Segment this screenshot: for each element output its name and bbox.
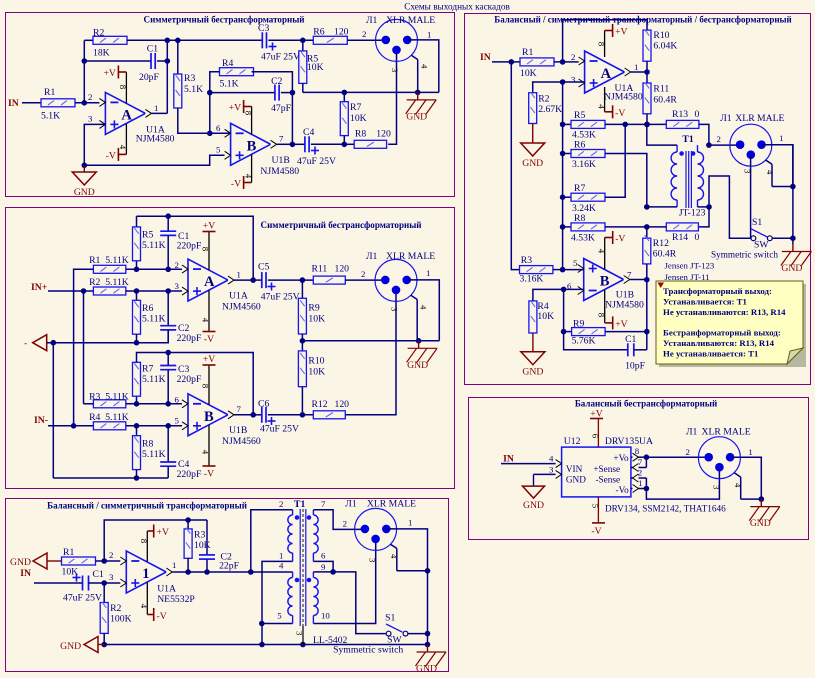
svg-text:120: 120	[334, 27, 349, 38]
power -V U1B (sec2)	[201, 425, 216, 480]
svg-text:5.11K: 5.11K	[142, 314, 166, 325]
svg-text:-V: -V	[204, 469, 214, 480]
wire R5 to top rail	[136, 216, 138, 227]
section 5 title	[575, 399, 717, 409]
wire R14 left	[647, 226, 667, 228]
svg-text:20pF: 20pF	[139, 72, 160, 83]
svg-text:+Vo: +Vo	[613, 453, 629, 463]
svg-text:U12: U12	[564, 436, 581, 447]
ground GND arrow upper (sec3)	[10, 553, 62, 569]
svg-text:10K: 10K	[537, 311, 554, 322]
svg-text:5: 5	[216, 145, 221, 155]
transformer T1 LL-5402 (sec3)	[277, 499, 347, 646]
svg-text:5.11K: 5.11K	[142, 449, 166, 460]
svg-text:Symmetric switch: Symmetric switch	[711, 250, 778, 260]
wire R11 to XLR pin2	[345, 269, 385, 280]
svg-text:S1: S1	[752, 217, 762, 228]
svg-text:U1A: U1A	[157, 584, 176, 595]
ground chassis GND (sec3)	[416, 645, 447, 675]
svg-text:8: 8	[118, 85, 128, 90]
svg-text:4: 4	[765, 170, 775, 175]
svg-text:Symmetric switch: Symmetric switch	[333, 645, 403, 656]
resistor R9 (sec4)	[564, 319, 606, 347]
svg-text:4: 4	[139, 604, 149, 609]
capacitor C1 (sec1)	[84, 44, 167, 84]
wire T1 primary bottom (sec4)	[647, 206, 677, 208]
wire out to T1 pin4	[251, 571, 293, 573]
section 2 frame: Симметричный бестрансформаторный	[6, 208, 455, 489]
wire C3 to R6	[268, 38, 313, 44]
wire R12 to pin7	[644, 264, 650, 283]
svg-text:R7: R7	[142, 364, 153, 375]
svg-text:1: 1	[426, 268, 430, 278]
svg-text:10K: 10K	[62, 567, 79, 578]
wire R7 to pin7 line	[342, 136, 348, 148]
svg-text:47uF 25V: 47uF 25V	[261, 292, 300, 303]
wire pin6 net	[533, 287, 584, 301]
resistor R13 (sec4)	[666, 109, 699, 128]
wire pin8 +Vo	[631, 446, 649, 461]
svg-text:7: 7	[279, 134, 284, 144]
svg-text:0: 0	[695, 109, 700, 120]
svg-text:47pF: 47pF	[271, 103, 292, 114]
svg-text:22pF: 22pF	[219, 561, 240, 572]
wire IN+ line	[48, 288, 93, 294]
wire B node vertical	[646, 227, 648, 238]
svg-text:R8: R8	[355, 129, 366, 140]
svg-text:DRV135UA: DRV135UA	[605, 436, 653, 447]
wire R11 to R13 line	[644, 114, 650, 127]
svg-text:2: 2	[109, 550, 113, 560]
svg-text:GND: GND	[74, 187, 95, 198]
svg-text:2: 2	[343, 519, 347, 529]
wire XLR1 pin4 shell	[411, 55, 429, 92]
svg-text:6: 6	[591, 434, 601, 439]
wire out to T1 pin2	[251, 510, 293, 572]
svg-text:B: B	[204, 409, 214, 425]
svg-text:R13: R13	[672, 109, 688, 120]
wire XLR3 pin4 shell	[389, 544, 428, 571]
svg-text:Л1: Л1	[366, 251, 378, 262]
capacitor C4 (sec2)	[160, 426, 202, 480]
svg-text:Балансный / симметричный транс: Балансный / симметричный трансформаторны…	[47, 501, 247, 511]
svg-text:Схемы выходных каскадов: Схемы выходных каскадов	[404, 2, 510, 12]
wire XLR3 pin1	[386, 529, 430, 574]
svg-text:3: 3	[295, 631, 305, 636]
svg-text:C2: C2	[271, 76, 282, 87]
svg-text:GND: GND	[60, 641, 81, 652]
ground chassis GND (sec4)	[781, 244, 812, 274]
wire T1 pin7 to XLR pin2	[313, 510, 365, 530]
wire secondary to R14	[698, 207, 709, 227]
svg-text:120: 120	[335, 264, 350, 275]
svg-text:8: 8	[201, 247, 211, 252]
wire cross vertical x73	[71, 269, 94, 428]
svg-text:Трансформаторный выход:: Трансформаторный выход:	[663, 286, 772, 296]
svg-text:GND: GND	[416, 664, 437, 675]
svg-text:Устанавливается: T1: Устанавливается: T1	[663, 296, 747, 306]
svg-text:5: 5	[591, 504, 601, 509]
resistor R5 (sec2)	[133, 227, 166, 269]
op-amp U1B (sec4) NJM4580	[567, 258, 644, 311]
ground chassis GND (sec5)	[749, 499, 780, 529]
svg-text:R2: R2	[110, 603, 121, 614]
power -V U1A (sec1)	[106, 124, 128, 162]
power -V U1A (sec2)	[201, 290, 216, 345]
resistor R10 (sec4)	[643, 30, 677, 62]
wire T1 pin6 to pin9	[313, 561, 336, 574]
ground chassis GND (sec2)	[407, 341, 438, 371]
node IN- (sec2)	[34, 415, 48, 426]
wire R8 bottom	[136, 470, 138, 478]
wire R8 to R14 line	[605, 224, 650, 230]
connector Л1 XLR MALE (sec4)	[720, 113, 784, 166]
op-amp U1A (sec2) NJM4560	[175, 259, 261, 312]
svg-text:NJM4580: NJM4580	[260, 166, 299, 177]
wire pin6 to R9	[561, 289, 567, 334]
wire pin7 +Sense	[631, 457, 647, 472]
wire IN to pin4	[501, 454, 562, 468]
capacitor C2 (sec1)	[210, 76, 293, 114]
wire switch to gnd vertical	[408, 631, 430, 637]
svg-text:6.04K: 6.04K	[653, 41, 677, 52]
capacitor C1 10pF (sec4)	[564, 332, 647, 372]
svg-text:R9: R9	[308, 303, 319, 314]
svg-text:NJM4580: NJM4580	[604, 91, 643, 102]
wire R12 to XLR pin3	[345, 290, 396, 415]
wire XLR4 pin4 shell	[765, 160, 793, 187]
svg-text:IN: IN	[8, 98, 19, 109]
svg-text:5: 5	[277, 611, 282, 621]
wire R9 to out vertical	[605, 329, 650, 335]
wire R7 top rail B	[137, 350, 257, 418]
svg-text:IN+: IN+	[31, 282, 47, 293]
svg-text:220pF: 220pF	[177, 374, 202, 385]
svg-text:8: 8	[597, 42, 607, 47]
svg-text:2: 2	[175, 260, 179, 270]
svg-text:5: 5	[573, 258, 578, 268]
wire R6 bottom to mid rail	[136, 334, 138, 343]
svg-text:R5: R5	[142, 230, 153, 241]
wire pin1 -Vo	[631, 478, 649, 493]
IC U12 DRV135UA	[562, 436, 653, 497]
svg-text:10K: 10K	[520, 68, 537, 79]
text Jensen JT-11	[665, 272, 710, 282]
svg-text:GND: GND	[522, 158, 543, 169]
wire R8 to XLR pin3	[388, 50, 396, 144]
resistor R9 (sec2)	[298, 280, 325, 334]
svg-text:3: 3	[368, 558, 378, 563]
svg-text:C1: C1	[147, 44, 158, 55]
svg-text:Л1: Л1	[345, 499, 357, 510]
svg-text:10K: 10K	[308, 367, 325, 378]
wire R6 to XLR pin2	[347, 29, 386, 40]
svg-text:18K: 18K	[93, 48, 110, 59]
section 5 frame: Балансный бестрансформаторный	[469, 398, 809, 540]
svg-text:0: 0	[695, 232, 700, 243]
wire R9-R10 mid	[300, 334, 306, 351]
wire IN to C1	[34, 582, 83, 584]
svg-text:4: 4	[389, 554, 399, 559]
svg-text:R2 5.11K: R2 5.11K	[89, 277, 129, 288]
svg-text:VIN: VIN	[566, 464, 583, 474]
capacitor C5 47uF (sec2)	[253, 262, 313, 303]
capacitor C4 47uF (sec1)	[292, 127, 344, 167]
power +V U1B (sec4)	[597, 290, 628, 330]
wire output vertical x167	[165, 40, 171, 113]
wire U1A out to x167	[151, 112, 167, 114]
svg-text:R11: R11	[653, 84, 669, 95]
wire -Vo to XLR pin3	[646, 467, 719, 499]
svg-text:Симметричный бестрансформаторн: Симметричный бестрансформаторный	[144, 15, 305, 25]
wire top rail to R2	[84, 39, 93, 41]
svg-text:C1: C1	[93, 569, 104, 580]
ground GND arrow lower (sec3)	[60, 637, 104, 653]
svg-text:C3: C3	[258, 23, 269, 34]
wire IN to R1	[492, 59, 520, 65]
text DRV134 equivalents	[605, 504, 726, 514]
svg-text:R1: R1	[44, 87, 55, 98]
wire U1B out (sec2)	[234, 414, 253, 416]
resistor R1 (sec3)	[62, 547, 96, 578]
svg-text:R12: R12	[312, 399, 328, 410]
svg-text:R5: R5	[574, 110, 585, 121]
svg-text:8: 8	[244, 111, 254, 116]
svg-text:7: 7	[321, 499, 326, 509]
svg-text:10K: 10K	[308, 314, 325, 325]
wire +Vo to XLR pin2	[646, 447, 708, 457]
svg-text:R2: R2	[93, 28, 104, 39]
wire XLR5 pin4 shell	[733, 473, 761, 499]
svg-text:JT-123: JT-123	[679, 208, 706, 219]
resistor R3 (sec3)	[184, 520, 211, 558]
section 2 title	[261, 220, 422, 230]
svg-text:+V: +V	[615, 319, 627, 330]
wire XLR3 pin3 label	[368, 558, 378, 563]
svg-text:4: 4	[420, 64, 430, 69]
svg-text:NE5532P: NE5532P	[157, 594, 195, 605]
svg-text:GND: GND	[523, 500, 544, 511]
connector Л1 XLR MALE (sec3)	[345, 499, 416, 551]
wire feedback rail A (sec4)	[563, 20, 647, 62]
svg-text:6: 6	[321, 551, 326, 561]
svg-text:2.67K: 2.67K	[538, 104, 562, 115]
svg-text:+Sense: +Sense	[593, 464, 620, 474]
svg-text:Jensen JT-123: Jensen JT-123	[665, 261, 715, 271]
wire ground rail to pin5	[84, 155, 230, 165]
wire top rail A (sec2)	[137, 213, 257, 283]
wire pin3 vertical (sec4)	[560, 79, 566, 272]
svg-text:-Vo: -Vo	[616, 485, 630, 495]
svg-text:Устанавливаются: R13, R14: Устанавливаются: R13, R14	[663, 338, 775, 348]
resistor R10 (sec2)	[298, 351, 325, 387]
power +V (sec5)	[590, 409, 603, 448]
svg-text:4: 4	[118, 145, 128, 150]
svg-text:3: 3	[109, 572, 114, 582]
svg-text:2: 2	[88, 92, 92, 102]
wire XLR4 pin1	[762, 145, 796, 190]
op-amp U1B (sec2) NJM4560	[175, 394, 261, 447]
capacitor C2 (sec3)	[199, 520, 240, 575]
power +V U1B (sec1)	[229, 100, 254, 134]
capacitor C3 47uF (sec1)	[258, 23, 300, 63]
ground GND (sec5)	[523, 486, 545, 511]
section 4 title	[494, 15, 791, 25]
resistor R4 (sec2)	[89, 412, 129, 430]
resistor R5 (sec4)	[563, 110, 605, 141]
op-amp U1B (sec1) NJM4580	[216, 123, 299, 177]
svg-text:R7: R7	[350, 102, 361, 113]
svg-text:60.4R: 60.4R	[653, 95, 677, 106]
resistor R7 (sec1)	[340, 92, 366, 135]
svg-text:GND: GND	[10, 557, 31, 568]
section 1 frame: Симметричный бестрансформаторный	[6, 13, 455, 197]
svg-text:1: 1	[634, 62, 638, 72]
svg-text:GND: GND	[566, 475, 586, 485]
wire R6 to T1 bottom node	[605, 154, 650, 210]
svg-text:S1: S1	[385, 613, 395, 624]
resistor R3 (sec4)	[511, 62, 553, 285]
svg-text:XLR MALE: XLR MALE	[735, 113, 784, 124]
wire pin6 stub	[210, 132, 231, 134]
wire secondary to switch dogleg	[709, 176, 751, 238]
resistor R14 (sec4)	[666, 223, 699, 243]
svg-text:NJM4560: NJM4560	[222, 302, 261, 313]
wire XLR1 pin3 label	[390, 68, 400, 73]
svg-text:C1: C1	[625, 334, 636, 345]
svg-text:A: A	[204, 274, 215, 290]
wire R1 to pin2	[554, 52, 585, 65]
svg-text:5.1K: 5.1K	[184, 84, 203, 95]
svg-text:R4 5.11K: R4 5.11K	[89, 412, 129, 423]
wire U1B out	[277, 143, 293, 145]
wire R3 to pin5	[553, 269, 563, 271]
wire U1A out (sec2)	[234, 279, 253, 281]
wire IN- line	[48, 425, 93, 427]
svg-text:GND: GND	[407, 360, 428, 371]
svg-text:47uF 25V: 47uF 25V	[63, 593, 102, 604]
wire pin5 stub	[563, 269, 584, 271]
svg-text:+V: +V	[203, 354, 215, 365]
wire pin5 to gnd rail	[259, 624, 265, 648]
svg-text:3: 3	[743, 169, 753, 174]
wire pin2 -Sense	[631, 467, 647, 488]
svg-text:R14: R14	[672, 232, 688, 243]
switch S1 (sec3)	[333, 613, 408, 656]
wire R5 to gnd rail	[302, 83, 304, 92]
svg-text:2: 2	[686, 447, 690, 457]
section 3 title	[47, 501, 247, 511]
svg-text:R4: R4	[222, 58, 233, 69]
wire switch right (sec4)	[772, 235, 796, 241]
section 4 frame: Балансный / симметричный трансформаторный / бестрансформаторный	[465, 14, 811, 385]
op-amp U1A (sec3) NE5532P	[120, 551, 195, 605]
svg-text:5.11K: 5.11K	[142, 240, 166, 251]
svg-text:4: 4	[733, 483, 743, 488]
svg-text:R8: R8	[574, 213, 585, 224]
svg-text:U1B: U1B	[272, 155, 290, 166]
wire R3 to pin6	[126, 401, 188, 407]
power -V U1B (sec1)	[231, 154, 254, 189]
wire R7 to A node	[605, 124, 625, 197]
resistor R7 (sec4)	[563, 183, 605, 214]
wire R3 to pin6	[178, 108, 210, 133]
wire XLR5 pin3 label	[712, 485, 722, 490]
svg-text:100K: 100K	[110, 614, 132, 625]
svg-text:5.1K: 5.1K	[41, 111, 60, 122]
svg-text:-: -	[24, 338, 27, 349]
svg-text:1: 1	[638, 478, 642, 488]
wire feedback vertical x84	[82, 40, 88, 103]
wire R4 to pin5	[126, 423, 188, 429]
svg-text:5.11K: 5.11K	[142, 374, 166, 385]
svg-text:R8: R8	[142, 439, 153, 450]
wire R10 bottom	[300, 387, 306, 418]
svg-text:+V: +V	[103, 68, 115, 79]
svg-text:2: 2	[361, 269, 365, 279]
svg-text:10K: 10K	[307, 62, 324, 73]
svg-text:-V: -V	[106, 150, 116, 161]
resistor R8 (sec2)	[133, 426, 166, 470]
svg-text:R10: R10	[308, 356, 324, 367]
svg-text:NJM4580: NJM4580	[136, 134, 175, 145]
svg-text:47uF 25V: 47uF 25V	[297, 156, 336, 167]
wire R3 left cross	[84, 403, 94, 405]
resistor R2 (sec3)	[100, 583, 131, 633]
capacitor C2 (sec2)	[160, 291, 202, 344]
wire R2 to gnd rail	[101, 633, 107, 647]
svg-text:4: 4	[419, 305, 429, 310]
resistor R11 (sec2)	[312, 264, 350, 285]
svg-text:R1: R1	[522, 47, 533, 58]
page title	[404, 2, 510, 12]
svg-text:3: 3	[549, 464, 554, 474]
svg-text:2: 2	[638, 467, 642, 477]
svg-text:R1: R1	[63, 547, 74, 558]
wire T1 primary top (sec4)	[647, 124, 677, 145]
svg-text:C6: C6	[258, 399, 269, 410]
svg-text:1: 1	[408, 518, 412, 528]
svg-text:8: 8	[635, 446, 640, 456]
svg-text:R10: R10	[653, 30, 669, 41]
ground GND (sec4 R4)	[521, 333, 545, 378]
svg-text:Балансный бестрансформаторный: Балансный бестрансформаторный	[575, 399, 717, 409]
connector Л1 XLR MALE (sec1)	[366, 15, 435, 61]
resistor R2 (sec4)	[529, 82, 563, 124]
ground GND sec1	[72, 163, 96, 199]
resistor R1 (sec1)	[41, 87, 75, 122]
svg-text:GND: GND	[750, 518, 771, 529]
connector Л1 XLR MALE (sec5)	[686, 427, 753, 479]
wire T1 pin10 to XLR pin3	[313, 539, 375, 624]
svg-text:B: B	[247, 138, 257, 154]
svg-text:47uF 25V: 47uF 25V	[261, 52, 300, 63]
wire R3 to out	[185, 558, 191, 575]
svg-text:2: 2	[717, 134, 721, 144]
wire R1 to pin2	[96, 550, 127, 564]
wire T1 pin5	[262, 623, 293, 625]
svg-text:+V: +V	[157, 527, 169, 538]
svg-text:U1B: U1B	[229, 425, 247, 436]
svg-text:1: 1	[172, 560, 176, 570]
resistor R3 (sec1)	[174, 40, 203, 108]
svg-text:U1A: U1A	[229, 291, 248, 302]
node IN (sec3)	[20, 568, 31, 579]
svg-text:3: 3	[712, 485, 722, 490]
svg-text:Симметричный бестрансформаторн: Симметричный бестрансформаторный	[261, 220, 422, 230]
svg-text:Л1: Л1	[720, 113, 732, 124]
svg-text:-V: -V	[231, 179, 241, 190]
